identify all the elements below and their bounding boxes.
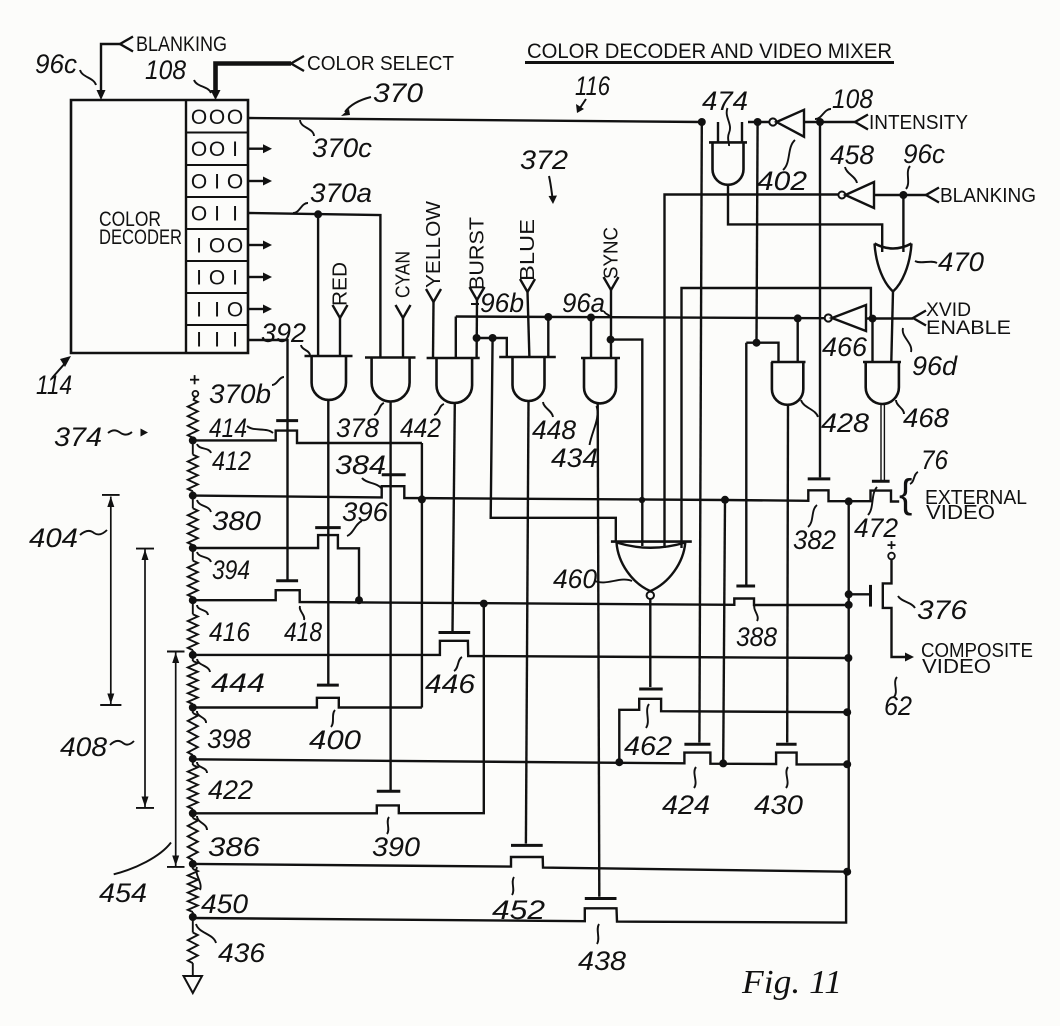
transistor 384 plate <box>382 473 406 476</box>
ground arrow <box>184 976 203 993</box>
svg-text:378: 378 <box>336 413 379 443</box>
AND gate 468 <box>863 361 901 364</box>
transistor 438 plate <box>585 897 617 900</box>
junction INTENSITY drop <box>816 118 824 126</box>
junction node 386 <box>192 809 194 813</box>
wire BURST <box>475 300 478 358</box>
svg-text:VIDEO: VIDEO <box>922 656 991 678</box>
wire 370a from decoder row 011 <box>248 213 380 358</box>
pointer 418 <box>300 606 305 620</box>
junction 390-riser on bus 416 <box>480 600 488 608</box>
svg-text:444: 444 <box>211 668 265 698</box>
junction node 416 <box>192 597 194 600</box>
svg-text:COLOR DECODER AND VIDEO MIXER: COLOR DECODER AND VIDEO MIXER <box>527 40 892 63</box>
pointer 450 <box>196 867 200 890</box>
wire RED <box>339 318 341 356</box>
svg-text:96c: 96c <box>903 139 945 169</box>
input chevron BLANKING right <box>926 188 939 203</box>
wire 474 left input <box>717 122 719 142</box>
wire BLANKING drop to OR 470 <box>902 195 904 252</box>
pointer 472 <box>868 487 877 515</box>
svg-text:372: 372 <box>520 145 568 175</box>
pointer 370b <box>272 377 284 385</box>
svg-text:446: 446 <box>425 669 476 699</box>
svg-text:380: 380 <box>212 506 261 536</box>
arrow 372 <box>549 176 553 198</box>
svg-text:408: 408 <box>60 732 107 762</box>
svg-text:O: O <box>209 106 225 129</box>
arrow COMPOSITE VIDEO <box>905 653 914 662</box>
junction crossing artifact on bus 380 <box>639 497 645 503</box>
wire gate 428 output <box>786 405 789 743</box>
pointer 396 <box>347 521 362 536</box>
wire INTENSITY input <box>804 121 855 123</box>
pointer 442 <box>434 404 444 415</box>
svg-text:458: 458 <box>830 140 874 170</box>
resistor 450-436 <box>192 864 194 869</box>
pointer 460 <box>595 580 632 583</box>
wire BURST branch to gate 448 <box>477 338 507 357</box>
wire 402 output to 474 <box>748 121 769 123</box>
AND gate 474 <box>709 141 747 144</box>
svg-text:I: I <box>196 267 202 290</box>
svg-text:370a: 370a <box>310 178 372 208</box>
color decoder inner divider <box>185 100 187 353</box>
AND gate 442 <box>427 357 480 360</box>
svg-text:388: 388 <box>736 622 777 652</box>
pointer 96c right <box>906 166 910 189</box>
pointer 438 <box>597 924 599 944</box>
svg-text:460: 460 <box>553 564 597 594</box>
pointer 392 <box>301 345 310 355</box>
svg-text:382: 382 <box>793 525 836 555</box>
transistor 452 plate <box>511 844 543 847</box>
bus 386 with transistor 390 channel <box>193 604 484 814</box>
svg-text:116: 116 <box>575 71 611 101</box>
AND gate 378 <box>365 356 416 359</box>
junction 96a at gate 434 drop <box>587 314 595 322</box>
svg-text:62: 62 <box>884 691 912 721</box>
svg-text:400: 400 <box>309 725 361 755</box>
svg-text:430: 430 <box>754 790 803 820</box>
input SYNC chevron <box>604 277 619 290</box>
svg-text:O: O <box>209 138 225 161</box>
wire NOT-INTENSITY drop <box>757 122 758 343</box>
transistor 396 plate <box>315 526 341 529</box>
bus 398 with transistor 400 channel <box>193 698 422 708</box>
input BLUE chevron <box>520 279 535 292</box>
wire SYNC branch to NOR 460 <box>611 340 643 546</box>
svg-text:376: 376 <box>917 595 968 625</box>
svg-text:370c: 370c <box>312 133 372 163</box>
svg-text:108: 108 <box>832 84 873 114</box>
wire branch to gate 428 left input <box>746 343 778 362</box>
svg-text:450: 450 <box>201 889 248 919</box>
svg-text:O: O <box>209 235 225 258</box>
input chevron XVID ENABLE <box>913 311 926 326</box>
wire gate 448 output <box>526 401 529 844</box>
pointer 394 <box>197 552 211 562</box>
AND gate 434 <box>581 357 620 360</box>
color decoder row lines <box>186 132 248 134</box>
pointer 108 <box>194 80 211 93</box>
junction BLANKING drop <box>899 191 907 199</box>
junction 466 output to gate 428 <box>794 314 802 322</box>
resistor 422-386 <box>192 759 194 765</box>
wire drop to gate 428 right input <box>797 318 799 362</box>
pointer 76 <box>910 472 918 484</box>
junction node 398 <box>192 704 194 708</box>
wire 474 right input <box>741 122 743 142</box>
resistor top segment <box>194 397 196 400</box>
AND gate 448 <box>499 356 556 359</box>
svg-text:O: O <box>191 138 207 161</box>
junction SYNC branch <box>607 336 615 344</box>
svg-text:I: I <box>214 329 220 352</box>
svg-text:I: I <box>214 299 220 322</box>
svg-text:I: I <box>232 203 238 226</box>
transistor 388 plate <box>736 585 755 588</box>
inverter 466 <box>825 314 832 321</box>
pointer 448 <box>543 402 553 417</box>
junction bus 444 at mix node <box>844 654 852 662</box>
wire NOT-BLANKING to NOR 460 <box>665 195 839 549</box>
svg-text:INTENSITY: INTENSITY <box>869 112 968 134</box>
pointer 424 <box>694 767 696 788</box>
pointer 408 tilde <box>110 741 134 745</box>
svg-text:O: O <box>209 267 225 290</box>
arrow 116 to line 370 <box>580 99 586 108</box>
pointer 414 <box>247 426 273 433</box>
svg-text:384: 384 <box>335 450 386 480</box>
svg-text:418: 418 <box>284 617 322 647</box>
resistor 444-398 <box>192 655 194 661</box>
ground lead <box>192 963 194 976</box>
svg-text:BLANKING: BLANKING <box>940 185 1036 207</box>
wire NOR 460 output to transistor 462 gate <box>649 599 651 687</box>
pointer 462 <box>646 704 649 728</box>
svg-text:96c: 96c <box>35 49 77 79</box>
svg-text:416: 416 <box>209 617 251 647</box>
svg-text:I: I <box>196 299 202 322</box>
pointer 96d <box>903 328 912 352</box>
svg-text:462: 462 <box>624 731 672 761</box>
junction bus 422 at mix node <box>843 760 851 768</box>
supply plus mark <box>190 379 199 381</box>
transistor 376 channel <box>883 559 905 657</box>
svg-text:{: { <box>899 472 912 516</box>
junction node 444 <box>192 650 194 655</box>
pointer 370c <box>300 120 314 136</box>
svg-text:RED: RED <box>330 262 352 306</box>
svg-text:O: O <box>227 106 243 129</box>
input chevron COLOR SELECT <box>291 56 304 71</box>
svg-text:96d: 96d <box>912 351 958 381</box>
pointer 96c <box>80 70 96 85</box>
svg-text:396: 396 <box>342 497 389 527</box>
transistor 376 supply circle <box>888 553 895 560</box>
decoder row output arrow y=148.7 <box>248 147 263 149</box>
svg-text:398: 398 <box>207 724 251 754</box>
input BURST chevron <box>470 287 485 300</box>
transistor 390 plate <box>377 790 401 793</box>
pointer 452 <box>512 877 514 895</box>
wire 474 output to OR 470 <box>728 185 882 252</box>
wire drop XVID to gate 468 left input <box>871 319 873 362</box>
NOR gate 460 bubble <box>647 592 654 599</box>
decoder row output arrow y=309 <box>248 308 263 310</box>
svg-text:392: 392 <box>261 318 306 348</box>
pointer 400 <box>331 710 335 727</box>
svg-text:O: O <box>191 106 207 129</box>
svg-text:442: 442 <box>400 413 441 443</box>
transistor 414 plate <box>276 419 298 422</box>
wire 96 bus (466 output) <box>456 317 825 319</box>
svg-text:466: 466 <box>822 332 868 362</box>
wire INTENSITY drop to transistor 382 gate <box>819 122 821 477</box>
svg-text:108: 108 <box>145 55 186 85</box>
svg-text:434: 434 <box>551 443 598 473</box>
wire drop to gate 448 <box>547 317 549 357</box>
junction EV-tap drop <box>721 496 729 504</box>
transistor 400 plate <box>317 684 339 687</box>
wire CYAN <box>402 318 404 358</box>
bus 416 with transistors 418 and 388 <box>193 590 849 605</box>
wire drop to gate 434 <box>590 318 592 359</box>
bus 422 with transistors 424 and 430 <box>193 753 847 765</box>
svg-text:76: 76 <box>921 445 949 475</box>
input RED chevron <box>333 305 348 318</box>
supply terminal circle <box>193 391 199 397</box>
junction node 394 <box>192 545 194 548</box>
junction bus 450 at mix node <box>843 868 851 876</box>
wire burst net drop to NOR 460 <box>491 338 616 542</box>
NOR gate 460 input bar <box>611 540 692 543</box>
pointer 434 <box>590 406 598 445</box>
bus 412 with transistor 414 channel <box>193 431 422 443</box>
pointer 474 squiggle <box>727 108 730 146</box>
AND gate RED (370a/RED) <box>305 355 353 358</box>
transistor 430 plate <box>776 743 797 746</box>
wire 370 from decoder row 000 <box>248 118 702 122</box>
svg-text:394: 394 <box>212 555 250 585</box>
dimension arrow 404 <box>102 494 120 496</box>
wire SYNC <box>610 290 612 358</box>
svg-text:96a: 96a <box>562 288 605 318</box>
pointer 62 <box>894 677 897 697</box>
arrow 374 <box>108 430 132 434</box>
wire 376 gate stub <box>849 593 871 595</box>
svg-text:424: 424 <box>662 790 710 820</box>
svg-text:436: 436 <box>218 938 266 968</box>
junction hat riser on bus 422 <box>615 758 623 766</box>
svg-text:Fig. 11: Fig. 11 <box>741 964 842 1001</box>
pointer 96a tail <box>604 311 611 318</box>
junction bus 416 at mix node <box>845 601 853 609</box>
label 96b <box>471 303 479 305</box>
arrow 370 pointer <box>345 97 371 112</box>
svg-text:O: O <box>227 171 243 194</box>
junction NOT-INTENSITY branch <box>753 339 761 347</box>
wire 392 from decoder row 111 <box>248 340 288 580</box>
pointer 444 <box>197 659 210 672</box>
junction XVID to gate 468 <box>869 315 877 323</box>
wire OR 470 output to gate 468 <box>891 291 893 362</box>
svg-text:BURST: BURST <box>467 217 489 290</box>
pointer 446 <box>454 657 462 671</box>
dimension arrow 408 <box>136 548 154 550</box>
transistor 376 supply plus <box>888 544 896 546</box>
svg-text:COLOR SELECT: COLOR SELECT <box>307 53 454 75</box>
OR gate 470 <box>875 244 912 292</box>
junction BURST at branch <box>473 334 481 342</box>
svg-text:390: 390 <box>372 832 420 862</box>
pointer 436 <box>196 924 216 943</box>
svg-text:I: I <box>232 138 238 161</box>
resistor 436-ground <box>192 917 194 933</box>
wire BLUE <box>528 292 530 357</box>
svg-text:448: 448 <box>532 415 576 445</box>
decoder row output arrow y=181 <box>248 180 263 182</box>
junction 394-bus joins 416-bus <box>355 596 363 604</box>
color decoder block 114 outline <box>71 100 248 353</box>
pointer 376 <box>898 596 915 608</box>
pointer 108 right <box>815 109 831 119</box>
pointer 412 <box>197 444 211 453</box>
pointer 390 <box>387 817 389 834</box>
junction NOT-INTENSITY drop <box>754 118 762 126</box>
resistor 398-422 <box>192 708 194 714</box>
svg-text:422: 422 <box>208 775 253 805</box>
bus 436 with transistor 438 channel <box>193 872 846 923</box>
pointer 384 <box>362 478 381 488</box>
pointer 428 <box>801 400 818 417</box>
resistor 394-416 <box>192 548 194 561</box>
svg-text:I: I <box>196 235 202 258</box>
decoder row output arrow y=245 <box>248 244 263 246</box>
wire riser 412-bus to 398-bus <box>421 443 423 708</box>
junction EV tap on bus 422 <box>719 759 727 767</box>
svg-text:CYAN: CYAN <box>393 251 415 298</box>
resistor 380-394 <box>192 496 194 509</box>
wire 370a drop to gate 392/RED <box>317 214 319 356</box>
pointer 380 <box>197 500 211 512</box>
junction 370a <box>314 210 322 218</box>
svg-text:402: 402 <box>757 166 807 196</box>
input YELLOW chevron <box>426 289 441 302</box>
transistor 472 plate <box>872 480 890 483</box>
junction 462 branch at mix node <box>843 708 851 716</box>
junction 96b at gate 448 drop <box>544 313 552 321</box>
pointer 388 <box>754 604 758 621</box>
input CYAN chevron <box>396 305 411 318</box>
wire EV tap drop to bus 422 <box>723 500 725 764</box>
pointer 468 <box>896 400 904 414</box>
junction node 436 <box>192 912 194 917</box>
junction EV bus at mix node <box>845 497 853 505</box>
svg-text:96b: 96b <box>480 288 524 318</box>
pointer 430 <box>786 767 788 788</box>
wire gate 378 output <box>389 402 391 791</box>
wire YELLOW <box>432 302 435 358</box>
bus 450 with transistor 452 channel <box>193 857 847 872</box>
input chevron BLANKING <box>120 37 133 52</box>
wire 96 bus drop to gate 442 <box>455 317 457 359</box>
pointer 382 <box>808 505 817 527</box>
pointer 458 <box>845 167 857 183</box>
svg-text:428: 428 <box>821 408 869 438</box>
bus 444 with transistor 446 channel <box>193 641 849 658</box>
svg-text:O: O <box>191 203 207 226</box>
pointer 370a <box>293 203 308 213</box>
pointer 470 <box>915 261 937 263</box>
pointer 416 <box>197 605 208 615</box>
svg-text:I: I <box>214 203 220 226</box>
wire XVID ENABLE input <box>866 317 913 319</box>
svg-text:I: I <box>232 267 238 290</box>
svg-text:YELLOW: YELLOW <box>423 201 445 288</box>
arrow 114 to block corner <box>52 361 67 378</box>
svg-text:I: I <box>214 171 220 194</box>
transistor 376 plate <box>869 585 872 607</box>
junction node 422 <box>192 755 194 759</box>
dimension arrow 454 <box>167 651 185 653</box>
svg-text:BLUE: BLUE <box>517 219 539 281</box>
wire 370 junction to vertical drop <box>698 118 706 126</box>
wire video mix node vertical <box>848 501 850 871</box>
svg-text:470: 470 <box>938 247 984 277</box>
svg-text:370: 370 <box>373 78 423 108</box>
title underline <box>525 61 894 64</box>
pointer 404 tilde <box>80 530 107 535</box>
svg-text:O: O <box>227 299 243 322</box>
wire BLANKING right input <box>874 194 926 196</box>
svg-text:472: 472 <box>854 513 898 543</box>
junction riser on bus 380 <box>418 495 426 503</box>
svg-text:DECODER: DECODER <box>99 225 182 249</box>
wire COLOR SELECT thick input <box>216 64 292 91</box>
wire gate 468 output (double) <box>880 404 882 480</box>
transistor 446 plate <box>439 631 471 634</box>
wire transistor 388 gate <box>745 343 747 585</box>
pointer 398 <box>197 711 206 723</box>
pointer 454 <box>114 843 171 875</box>
svg-text:438: 438 <box>578 946 626 976</box>
svg-text:412: 412 <box>212 446 251 476</box>
pointer 378 <box>374 403 384 415</box>
wire XVID riser and run to NOR <box>682 288 871 548</box>
resistor 386-450 <box>192 813 194 818</box>
pointer 422 <box>197 762 207 773</box>
junction mix node 376 gate stub <box>845 590 853 598</box>
svg-text:BLANKING: BLANKING <box>136 33 227 56</box>
inverter 402 <box>769 118 776 125</box>
svg-text:I: I <box>232 329 238 352</box>
transistor 418 plate <box>276 579 298 582</box>
pointer 386 <box>197 816 207 830</box>
wire gate 434 output <box>598 403 600 896</box>
svg-text:386: 386 <box>208 832 261 862</box>
svg-text:454: 454 <box>99 878 147 908</box>
transistor 382 plate <box>808 477 831 480</box>
svg-text:370b: 370b <box>209 379 271 409</box>
svg-text:414: 414 <box>209 413 247 443</box>
NOR gate 460 body <box>617 543 686 548</box>
transistor 462 plate <box>639 688 663 691</box>
bus 394 with transistor 396 channel <box>193 535 359 600</box>
svg-text:O: O <box>191 171 207 194</box>
wire net-370 long drop to transistor 424 gate <box>699 122 701 743</box>
